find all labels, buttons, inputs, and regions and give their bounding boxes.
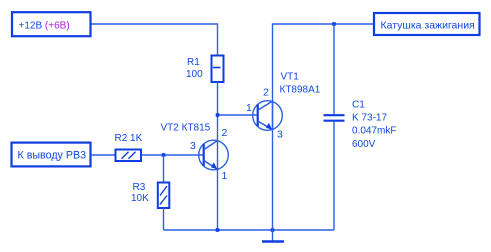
svg-text:1: 1 bbox=[222, 170, 228, 182]
svg-text:K 73-17: K 73-17 bbox=[352, 113, 387, 124]
junction node B bbox=[162, 153, 166, 157]
wire C1 top bbox=[333, 24, 335, 114]
wire R2 to VT2 base bbox=[141, 154, 204, 156]
wire from +12V box to R1 top bbox=[91, 24, 218, 56]
resistor R1 bbox=[186, 56, 224, 83]
svg-text:VT2 КТ815: VT2 КТ815 bbox=[161, 123, 211, 134]
svg-text:3: 3 bbox=[190, 140, 196, 152]
svg-text:Катушка зажигания: Катушка зажигания bbox=[381, 20, 475, 32]
svg-text:600V: 600V bbox=[352, 139, 376, 150]
wire R3 to bottom rail bbox=[163, 208, 165, 230]
svg-text:R2 1K: R2 1K bbox=[115, 133, 143, 144]
svg-text:3: 3 bbox=[277, 129, 283, 141]
junction node A bbox=[216, 113, 220, 117]
svg-text:К выводу РВ3: К выводу РВ3 bbox=[18, 150, 87, 162]
svg-text:+12В (+6В): +12В (+6В) bbox=[19, 21, 70, 32]
bottom rail wire bbox=[164, 229, 335, 231]
node ignition coil box bbox=[374, 13, 480, 35]
svg-text:2: 2 bbox=[263, 87, 269, 99]
wire C1 bottom to rail bbox=[333, 122, 335, 230]
capacitor C1 bbox=[324, 100, 397, 151]
wire node A down through VT2 to bottom rail bbox=[217, 115, 219, 230]
wire VT1 collector up and to ignition coil box bbox=[273, 24, 374, 130]
wire node A to VT1 base bbox=[218, 114, 258, 116]
svg-text:100: 100 bbox=[186, 69, 203, 80]
node K vyvodu box bbox=[12, 143, 91, 167]
svg-text:1: 1 bbox=[246, 102, 252, 114]
resistor R3 bbox=[131, 182, 169, 208]
junction VT2 emitter to rail bbox=[216, 228, 220, 232]
node +12V box bbox=[12, 12, 91, 36]
wire node B to R3 bbox=[163, 155, 165, 183]
junction VT1 emitter to rail / ground bbox=[271, 228, 275, 232]
ground bbox=[262, 230, 284, 242]
wire VT1 vertical through circle to rail bbox=[272, 101, 274, 230]
svg-text:2: 2 bbox=[222, 127, 228, 139]
svg-text:10K: 10K bbox=[131, 193, 149, 204]
wire R1 bottom to node A bbox=[217, 82, 219, 115]
svg-text:КТ898А1: КТ898А1 bbox=[280, 85, 321, 96]
svg-text:R1: R1 bbox=[187, 57, 200, 68]
svg-text:VT1: VT1 bbox=[281, 72, 300, 83]
resistor R2 bbox=[115, 133, 143, 161]
wire box to R2 bbox=[91, 154, 116, 156]
junction top rail to C1 bbox=[332, 22, 336, 26]
svg-text:C1: C1 bbox=[352, 100, 365, 111]
transistor VT1 bbox=[246, 72, 321, 141]
svg-text:0.047mkF: 0.047mkF bbox=[352, 126, 396, 137]
svg-text:R3: R3 bbox=[133, 182, 146, 193]
transistor VT2 bbox=[161, 123, 229, 183]
